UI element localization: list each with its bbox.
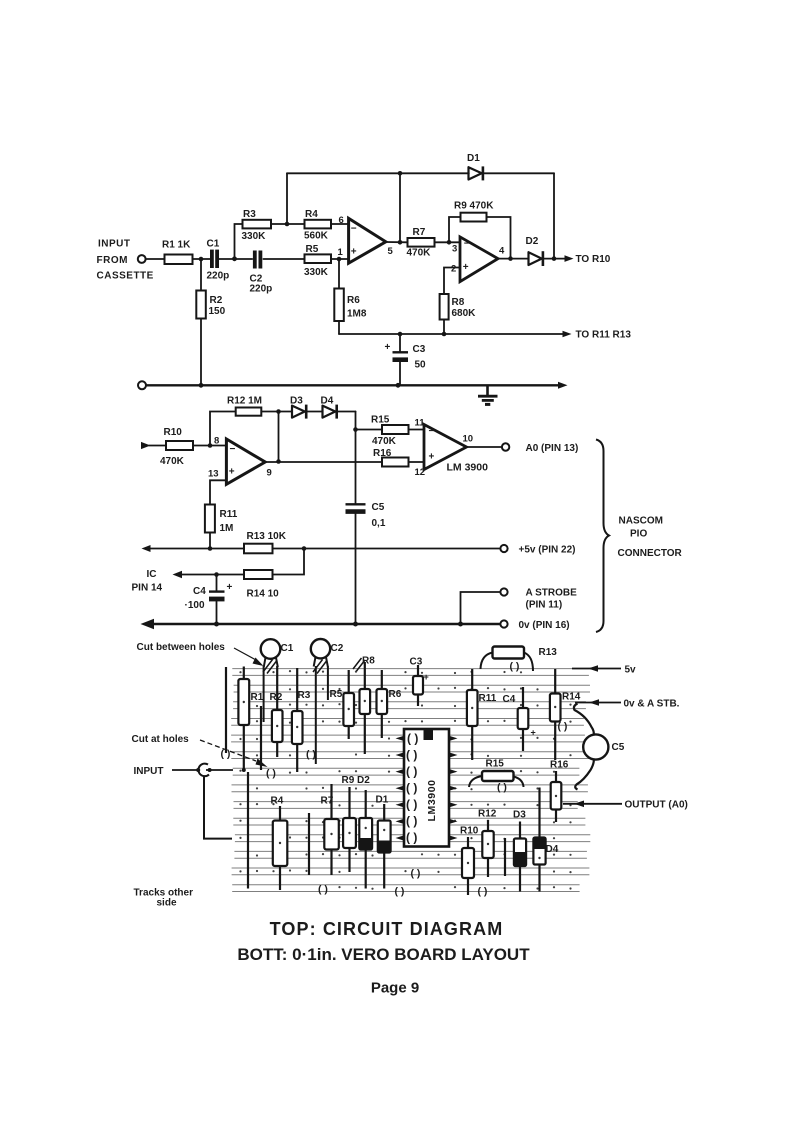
diode D4 [321,396,337,419]
svg-text:50: 50 [415,360,427,371]
wire +5v line right [273,548,501,550]
resistor R8 (board) [353,656,375,755]
wire pin9 output [265,461,382,463]
svg-text:D3: D3 [513,810,526,821]
wire top rail left of D1 [287,172,469,174]
svg-text:R6: R6 [347,295,360,306]
wire op2 output [498,258,529,260]
svg-text:FROM: FROM [97,255,128,266]
node A0 terminal [502,443,509,450]
resistor R13 [244,531,287,553]
svg-text:( ): ( ) [266,768,276,780]
svg-text:INPUT: INPUT [134,766,164,777]
node input terminal [138,255,146,263]
svg-text:C5: C5 [612,742,625,753]
svg-text:470K: 470K [407,248,432,259]
resistor R4 [304,209,331,242]
resistor R12 [227,396,262,416]
svg-text:R10: R10 [460,826,479,837]
svg-text:220p: 220p [250,284,273,295]
node junction R3/R4 [285,222,290,227]
wire [219,258,252,260]
wire R15 line [356,429,383,431]
svg-text:LM 3900: LM 3900 [447,462,489,474]
wire link mid left [308,813,310,875]
wire pin8 [193,445,226,447]
svg-text:D1: D1 [376,795,389,806]
svg-text:( ): ( ) [306,749,316,761]
svg-text:680K: 680K [452,308,477,319]
svg-text:9: 9 [267,468,272,479]
resistor R16 (board) [550,760,569,823]
svg-text:470K: 470K [372,436,397,447]
wire C5 to 0v [355,514,357,624]
svg-text:+: + [463,262,469,273]
node A STROBE terminal [500,588,507,595]
node arrow TO R11 R13 [563,331,572,338]
resistor R6 (board) [377,670,402,738]
svg-text:R11: R11 [479,693,497,704]
node junction R6 tap [337,257,342,262]
svg-text:( ): ( ) [497,782,507,794]
svg-text:0,1: 0,1 [372,518,386,529]
svg-text:−: − [230,444,236,455]
node junction R15 tap [353,427,358,432]
svg-text:R8: R8 [452,297,465,308]
svg-text:( ): ( ) [395,886,405,898]
diode D2 [526,236,543,266]
wire down from rail to D2 output [553,173,555,258]
node junction C5 bottom [353,622,358,627]
resistor R11 [205,505,238,549]
svg-text:R1: R1 [251,692,264,703]
svg-text:R11: R11 [220,509,238,520]
node junction C4 top [214,572,219,577]
svg-text:A STROBE: A STROBE [526,588,578,599]
svg-text:R5: R5 [330,689,343,700]
resistor R2 [196,259,225,385]
svg-text:R2: R2 [270,692,283,703]
wire up to R12 line [210,412,236,446]
svg-text:330K: 330K [304,267,329,278]
svg-text:C2: C2 [331,643,344,654]
diode D2 (board) [359,790,372,889]
node 0v terminal [500,620,507,627]
wire pin10 output [467,446,502,448]
wire pin11 [409,429,425,431]
svg-text:C1: C1 [281,643,294,654]
capacitor C2 (board) [311,639,330,674]
node arrow IC PIN 14 [173,571,183,578]
node arrow +5v line start [142,545,151,552]
node junction [398,240,403,245]
svg-text:1M: 1M [220,523,234,534]
wire [146,258,165,260]
resistor R8 [440,294,477,320]
wire pointer cut-at-holes [200,740,256,761]
resistor R9 feedback [449,201,511,259]
wire link far left [225,667,227,753]
svg-text:R16: R16 [373,448,392,459]
capacitor C1 [207,239,230,282]
svg-text:470K: 470K [160,456,185,467]
svg-text:C5: C5 [372,502,385,513]
wire [337,411,356,413]
wire [306,411,322,413]
svg-text:D3: D3 [290,396,303,407]
capacitor C4 (board) [503,687,536,751]
svg-text:11: 11 [415,418,426,429]
svg-text:R7: R7 [321,796,334,807]
node junction R9 tap [447,240,452,245]
svg-text:D4: D4 [546,844,559,855]
wire vertical D4 to C5 [355,412,357,504]
svg-text:1: 1 [338,247,344,258]
vero board hole dots [239,670,571,890]
node arrow input from TO R10 [141,442,151,449]
svg-text:R16: R16 [550,760,569,771]
svg-text:LM3900: LM3900 [426,779,438,821]
op-amp U1d LM3900 (pins 11,12,10) [415,418,489,479]
node junction C3 tap [398,332,403,337]
resistor R2 (board) [270,666,283,757]
svg-text:R15: R15 [486,759,505,770]
wire C2 left leg into board [315,666,317,764]
svg-text:+: + [424,672,429,682]
svg-text:1M8: 1M8 [347,309,367,320]
wire +5v line left [150,548,245,550]
svg-text:(PIN 11): (PIN 11) [526,600,563,611]
svg-text:R4: R4 [305,209,318,220]
svg-text:D4: D4 [321,396,334,407]
svg-text:C4: C4 [503,694,516,705]
op-amp 2 (pins 3,2,4) [451,237,505,282]
resistor R12 (board) [478,809,497,878]
resistor R4 (board) [271,796,288,891]
svg-text:R1 1K: R1 1K [162,240,191,251]
node arrow ground rail end [558,382,568,389]
svg-text:C3: C3 [410,657,423,668]
diode D4 (board) [533,788,558,892]
svg-text:+: + [385,342,391,353]
IC pins left [396,736,405,841]
svg-text:IC: IC [147,569,157,580]
resistor R5 [304,244,331,278]
svg-text:4: 4 [499,246,505,257]
label OUTPUT (A0) callout [563,800,688,811]
svg-text:150: 150 [209,306,226,317]
diode D1 (board) [376,795,391,889]
svg-text:R3: R3 [243,209,256,220]
svg-text:( ): ( ) [558,721,568,733]
svg-text:R3: R3 [298,690,311,701]
svg-text:R14: R14 [562,692,581,703]
svg-text:R12 1M: R12 1M [227,396,262,407]
wire C1 left leg into board [263,666,265,722]
node junction R14 tap [302,546,307,551]
brace NASCOM PIO CONNECTOR [596,440,609,633]
svg-text:side: side [157,898,177,909]
svg-text:+: + [429,452,435,463]
svg-text:0v (PIN 16): 0v (PIN 16) [519,620,570,631]
svg-text:3: 3 [452,243,457,254]
svg-text:R4: R4 [271,796,284,807]
node junction R11 bottom [208,546,213,551]
svg-text:Cut between holes: Cut between holes [137,642,226,653]
svg-text:TOP: CIRCUIT DIAGRAM: TOP: CIRCUIT DIAGRAM [270,919,504,939]
capacitor C3 (board) [410,657,429,707]
svg-text:220p: 220p [207,271,230,282]
wire link left long [247,772,249,889]
wire TO R11 R13 line [339,333,563,335]
svg-text:Cut at holes: Cut at holes [132,734,190,745]
svg-text:560K: 560K [304,231,329,242]
resistor R15 [371,415,409,448]
svg-text:+: + [229,467,235,478]
wire pin6 input [331,223,348,225]
node junction on pin9 wire [276,459,281,464]
svg-text:C1: C1 [207,239,220,250]
svg-text:13: 13 [208,469,219,480]
resistor R1 (board) [238,667,263,773]
node junction R9 return [508,256,513,261]
svg-text:( ): ( ) [406,748,417,762]
svg-text:+: + [227,582,233,593]
svg-text:R13 10K: R13 10K [247,531,287,542]
svg-text:R5: R5 [306,244,319,255]
svg-text:( ): ( ) [221,748,231,760]
wire pin12 [409,461,425,463]
op-amp U1b (pins 8,13,9) [208,436,272,485]
svg-text:5v: 5v [625,665,637,676]
label INPUT callout [134,764,234,839]
wire ground rail [146,384,560,386]
wire vertical to top rail [286,173,288,224]
resistor R3 [242,209,272,242]
svg-text:( ): ( ) [406,814,417,828]
svg-text:C3: C3 [413,344,426,355]
svg-text:+: + [351,247,357,258]
wire pin1 input [331,258,348,260]
node arrow 0v line start [141,619,155,629]
svg-text:C4: C4 [193,586,206,597]
svg-text:−: − [351,224,357,235]
svg-text:( ): ( ) [318,884,328,896]
wire [149,445,166,447]
svg-text:CONNECTOR: CONNECTOR [618,548,683,559]
capacitor C4 [185,575,233,625]
svg-text:Page 9: Page 9 [371,980,419,997]
capacitor C1 (board) [261,639,281,673]
svg-text:INPUT: INPUT [98,239,131,250]
node +5v terminal [500,545,507,552]
svg-text:BOTT: 0·1in. VERO BOARD LAYO: BOTT: 0·1in. VERO BOARD LAYOUT [237,945,530,964]
resistor R10 (board) [460,826,479,896]
resistor R6 [334,259,367,334]
node junction C4 bottom [214,622,219,627]
resistor R9 (board) [343,787,356,872]
svg-text:( ): ( ) [406,765,417,779]
svg-text:R10: R10 [164,427,183,438]
svg-text:R12: R12 [478,809,497,820]
svg-text:R9 D2: R9 D2 [342,775,371,786]
resistor R16 [373,448,409,467]
wire [263,258,304,260]
wire link mid right [504,838,506,876]
svg-text:NASCOM: NASCOM [619,516,663,527]
resistor R13 (board) [481,647,558,672]
svg-text:CASSETTE: CASSETTE [97,271,154,282]
capacitor C5 [346,502,386,529]
svg-text:12: 12 [415,467,426,478]
node junction pin8/R12 [208,443,213,448]
node junction C1/C2/R3 [232,256,237,261]
node junction R1/C1/R2 [199,257,204,262]
resistor R7 [407,227,435,259]
wire R14 right up to +5v junction [273,549,305,575]
op-amp 1 (pins 6,1,5) [338,215,394,263]
diode D1 [467,153,483,180]
capacitor C5 (board) [574,704,625,790]
wire op1 output [386,241,408,243]
capacitor C2 [250,251,273,295]
svg-text:−: − [429,426,435,437]
IC inner cut marks [406,732,418,845]
label 0v & A STB callout [575,699,680,710]
wire link left-mid [260,706,262,770]
svg-text:R7: R7 [413,227,426,238]
wire R8 to lower line [443,320,445,335]
svg-text:+: + [531,728,536,738]
svg-text:0v & A STB.: 0v & A STB. [624,699,680,710]
svg-text:5: 5 [388,246,394,257]
wire top rail right of D1 [481,172,554,174]
svg-text:8: 8 [214,436,219,447]
wire op2 pin2 to R8 [444,268,460,295]
IC LM3900 (board) [404,729,449,847]
wire up from C1-C2 node to R3 [235,224,243,259]
wire [193,258,211,260]
resistor R1 [162,240,193,265]
svg-text:( ): ( ) [406,798,417,812]
svg-text:R13: R13 [539,647,558,658]
IC pins right [449,736,458,841]
svg-text:D1: D1 [467,153,480,164]
svg-text:R2: R2 [210,295,223,306]
wire [271,223,305,225]
wire feedback vertical [278,412,280,462]
node junction pin9 feedback tap [276,409,281,414]
resistor R11 (board) [467,669,497,760]
resistor R15 (board) [469,759,524,788]
diode D3 (board) [513,810,526,892]
vero board tracks [231,669,590,892]
node junction R8 bottom [442,332,447,337]
resistor R10 [160,427,193,467]
svg-text:TO R10: TO R10 [576,254,611,265]
svg-text:( ): ( ) [406,831,417,845]
svg-text:330K: 330K [242,231,267,242]
svg-text:10: 10 [463,434,474,445]
wire to op2 pin3 [435,241,461,243]
resistor R3 (board) [292,668,311,772]
capacitor C3 [385,334,427,385]
wire C2 right leg into board [327,666,329,700]
resistor R14 [244,570,279,600]
node junction R2 bottom [199,383,204,388]
svg-text:PIN 14: PIN 14 [132,583,163,594]
node junction C3 bottom [396,383,401,388]
wire pin13 to R11 [210,480,226,504]
svg-text:OUTPUT (A0): OUTPUT (A0) [625,800,688,811]
wire A STROBE to 0v [461,592,501,624]
wire [261,411,292,413]
svg-text:A0 (PIN 13): A0 (PIN 13) [526,443,579,454]
svg-text:D2: D2 [526,236,539,247]
svg-text:2: 2 [451,264,456,275]
wire 0v line [152,623,500,626]
ground [478,385,498,404]
node junction A strobe bottom [458,622,463,627]
resistor R14 (board) [550,669,581,760]
svg-text:R14 10: R14 10 [247,589,280,600]
svg-text:( ): ( ) [406,781,417,795]
svg-text:( ): ( ) [510,661,520,673]
svg-text:( ): ( ) [478,886,488,898]
cut marks on tracks [221,661,568,898]
wire R14 line [181,574,244,576]
wire down from rail to op1 output [399,173,401,242]
resistor R7 (board) [321,784,339,875]
svg-text:TO R11 R13: TO R11 R13 [576,330,632,341]
node ground terminal [138,381,146,389]
svg-text:R9 470K: R9 470K [454,201,494,212]
svg-text:R8: R8 [362,656,375,667]
wire pointer cut-between-holes [234,648,256,660]
node junction D1 return [552,256,557,261]
resistor R5 (board) [330,670,355,739]
diode D3 [290,396,306,419]
svg-text:·100: ·100 [185,600,205,611]
node arrow TO R10 [565,255,574,262]
label INPUT FROM CASSETTE [97,239,154,282]
svg-text:R6: R6 [389,689,402,700]
node junction on top rail [398,171,403,176]
svg-text:−: − [464,239,470,250]
svg-text:+5v (PIN 22): +5v (PIN 22) [519,545,576,556]
label 5v callout [572,665,636,676]
svg-text:R15: R15 [371,415,390,426]
svg-text:PIO: PIO [630,529,647,540]
wire to TO R10 [541,258,566,260]
svg-text:( ): ( ) [411,868,421,880]
svg-text:6: 6 [339,215,344,226]
svg-text:( ): ( ) [407,732,418,746]
